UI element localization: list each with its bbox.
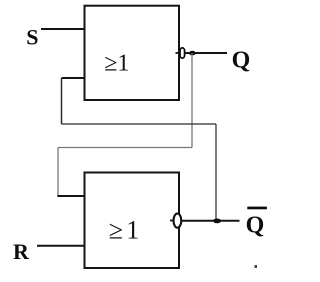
wire U2 output to Qbar [181, 220, 239, 222]
wire S to U1 input 1 [41, 28, 85, 30]
svg-text:≥1: ≥1 [104, 50, 129, 76]
svg-text:Q: Q [246, 213, 265, 239]
output label Qbar [246, 207, 267, 239]
svg-text:Q: Q [232, 47, 251, 73]
NOR gate U1 (top) box [85, 6, 180, 100]
wire feedback Q down-left (vertical) [57, 148, 59, 197]
wire feedback Qbar down (vertical) [215, 124, 217, 221]
NOR gate U2 (bottom) box [85, 173, 180, 269]
svg-text:S: S [26, 24, 38, 49]
wire feedback Q down (vertical) [191, 53, 193, 148]
svg-text:R: R [13, 239, 30, 264]
wire U1 input 2 horizontal [62, 77, 86, 79]
junction node Q [189, 51, 196, 56]
stray mark (period) bottom right [255, 265, 258, 268]
junction node Qbar [213, 219, 221, 224]
wire U1 output to Q [185, 52, 227, 54]
wire R to U2 input 2 [37, 245, 85, 247]
U2 output negation 0 [170, 214, 181, 228]
wire feedback Q horizontal [58, 147, 192, 149]
wire feedback Qbar up-left (vertical) [61, 78, 63, 124]
wire feedback Qbar horizontal [62, 123, 217, 125]
wire feedback Q to U2 input 1 [57, 195, 85, 197]
U1 output negation 0 [176, 48, 185, 58]
